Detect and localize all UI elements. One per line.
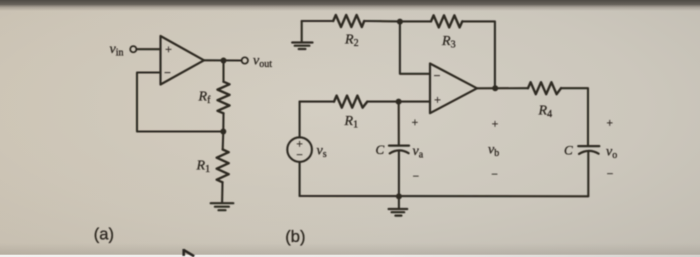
label C vo — [564, 143, 573, 158]
minus vb — [491, 169, 498, 181]
plus vo — [606, 118, 613, 130]
wire ground to R2 — [302, 20, 334, 22]
node feedback — [220, 129, 226, 135]
wire output to Rf — [222, 61, 224, 82]
svg-text:−: − — [164, 65, 171, 79]
svg-text:C: C — [564, 143, 573, 158]
wire vin to op-amp — [136, 48, 160, 50]
wire node down to minus input — [400, 22, 430, 74]
capacitor C vo — [578, 146, 599, 154]
svg-text:−: − — [434, 69, 441, 83]
label (a) — [94, 226, 114, 244]
capacitor C va — [389, 146, 409, 154]
resistor R4 — [528, 82, 561, 94]
label C va — [376, 142, 385, 157]
terminal vout — [242, 57, 248, 63]
node va — [396, 99, 402, 105]
plus va — [412, 117, 419, 129]
node output b — [492, 85, 498, 91]
wire op-amp output — [204, 59, 242, 61]
node output a — [221, 58, 227, 64]
label vb — [488, 143, 499, 159]
svg-text:−: − — [296, 150, 303, 162]
node ground b — [396, 193, 402, 199]
resistor R1 (a) — [217, 150, 229, 183]
source vs — [287, 137, 312, 162]
label Rf — [198, 90, 212, 106]
plus vb — [492, 119, 499, 131]
wire R4 to cap C vo — [561, 88, 588, 146]
label vs — [317, 144, 327, 160]
wire vs down — [299, 162, 301, 196]
wire cap va to rail — [398, 151, 400, 196]
wire node va down — [398, 102, 400, 146]
ground (a) — [211, 203, 234, 210]
svg-text:(a): (a) — [94, 226, 114, 244]
terminal vin — [130, 46, 136, 52]
node inverting net — [397, 19, 403, 25]
svg-text:−: − — [491, 169, 498, 181]
svg-text:+: + — [492, 119, 499, 131]
label R2 — [344, 33, 359, 49]
svg-text:+: + — [296, 138, 303, 150]
label R1 (a) — [196, 159, 211, 175]
wire feedback loop — [137, 73, 223, 132]
svg-text:+: + — [165, 42, 172, 56]
ground bottom (b) — [389, 196, 408, 215]
resistor R1 (b) — [334, 96, 367, 108]
wire Rf to node — [222, 113, 224, 131]
minus va — [413, 171, 420, 183]
wire R3 to right corner — [462, 21, 495, 88]
resistor R2 — [333, 15, 364, 27]
wire cap vo to rail — [587, 152, 589, 197]
minus vo — [607, 169, 614, 181]
label vout — [253, 54, 272, 70]
wire vs up — [299, 102, 301, 138]
wire node to R1 — [222, 132, 225, 150]
svg-text:+: + — [434, 93, 441, 107]
label R1 (b) — [344, 114, 359, 130]
wire R1 to plus input — [367, 101, 430, 103]
wire node to R3 — [400, 20, 431, 22]
label vin — [110, 42, 124, 58]
resistor R3 — [431, 15, 462, 27]
svg-text:+: + — [412, 117, 419, 129]
svg-text:−: − — [413, 171, 420, 183]
wire R2 to node — [364, 20, 400, 22]
stray pen mark — [184, 249, 195, 256]
wire bottom rail — [300, 195, 589, 197]
resistor Rf — [218, 82, 230, 114]
label R3 — [441, 34, 456, 50]
wire vs to R1 — [300, 101, 334, 103]
svg-text:C: C — [376, 142, 385, 157]
wire op-amp output b — [477, 87, 528, 89]
svg-text:(b): (b) — [285, 228, 305, 246]
svg-text:+: + — [606, 118, 613, 130]
ground top-left (b) — [292, 21, 312, 49]
op-amp U1 — [161, 36, 205, 85]
svg-text:−: − — [607, 169, 614, 181]
label R4 — [538, 104, 553, 120]
label va — [413, 144, 424, 160]
wire R1 to ground — [221, 182, 223, 203]
label vo — [606, 145, 617, 161]
op-amp U2 — [430, 64, 477, 114]
label (b) — [285, 228, 305, 246]
